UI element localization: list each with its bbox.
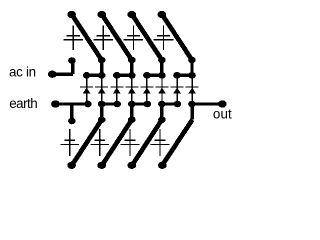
svg-text:out: out — [213, 106, 232, 121]
svg-text:earth: earth — [9, 96, 37, 111]
svg-text:ac in: ac in — [9, 64, 36, 79]
